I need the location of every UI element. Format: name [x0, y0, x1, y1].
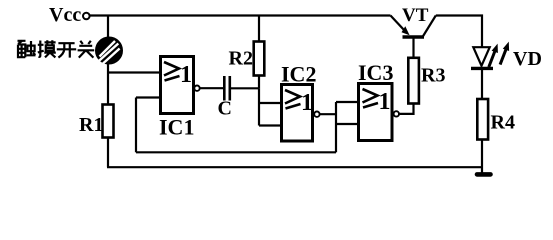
- wire IC3 upper input: [336, 101, 359, 103]
- wire feedback vertical right: [335, 102, 337, 152]
- wire IC2 input column: [258, 88, 260, 125]
- bubble IC2 output: [314, 112, 319, 117]
- transistor VT: [391, 16, 436, 38]
- char 开: [57, 43, 76, 57]
- svg-text:C: C: [218, 98, 232, 120]
- svg-text:Vcc: Vcc: [49, 4, 81, 26]
- wire IC2 upper input: [259, 102, 282, 104]
- or-gate IC1: [161, 57, 194, 114]
- wire IC2 output: [320, 113, 336, 115]
- wire IC3 output to R3: [399, 104, 413, 114]
- bubble IC3 output: [394, 111, 399, 116]
- wire IC2 lower input: [259, 124, 282, 126]
- char 触: [18, 41, 26, 58]
- svg-text:R1: R1: [79, 114, 103, 136]
- wire IC3 lower input: [336, 123, 359, 125]
- or-gate IC3: [359, 84, 393, 141]
- svg-text:IC3: IC3: [358, 60, 393, 85]
- wire top rail right (VT collector to VD): [436, 16, 482, 48]
- touch plate electrode: [96, 37, 122, 63]
- svg-text:VT: VT: [402, 5, 429, 26]
- resistor R4: [477, 99, 488, 140]
- resistor R1: [103, 105, 114, 138]
- wire VD to R4: [481, 70, 483, 99]
- wire C to R2 node: [231, 87, 259, 89]
- wire R3 top to VT base: [412, 39, 414, 58]
- wire top rail left (Vcc to VT emitter): [90, 14, 391, 16]
- bubble IC1 output: [194, 86, 199, 91]
- svg-text:IC2: IC2: [281, 62, 316, 87]
- wire Vcc column below plate to R1: [107, 64, 109, 105]
- wire R2 bottom lead: [258, 76, 260, 89]
- wire R4 bottom: [481, 140, 483, 175]
- terminal Vcc: [83, 13, 90, 20]
- resistor R3: [408, 58, 419, 104]
- wire bottom rail: [107, 166, 482, 168]
- wire R1 bottom: [107, 138, 109, 168]
- wire R2 top lead: [258, 16, 260, 42]
- char 关: [78, 41, 95, 58]
- svg-text:VD: VD: [513, 48, 542, 70]
- svg-text:1: 1: [180, 62, 192, 88]
- label 触摸开关 (touch switch): [18, 40, 95, 57]
- svg-text:R4: R4: [491, 112, 515, 134]
- svg-text:R2: R2: [229, 47, 253, 69]
- led VD: [471, 42, 509, 69]
- wire Vcc column upper: [107, 16, 109, 38]
- svg-text:IC1: IC1: [159, 115, 194, 140]
- svg-text:1: 1: [301, 90, 313, 116]
- capacitor C: [224, 76, 230, 101]
- char 摸: [38, 41, 44, 57]
- ground: [477, 172, 491, 177]
- wire feedback vertical left: [135, 98, 137, 153]
- wire feedback horizontal: [136, 151, 336, 153]
- wire IC1 upper input: [108, 71, 161, 73]
- wire IC1 output to C: [200, 87, 224, 89]
- svg-text:1: 1: [379, 89, 391, 115]
- wire IC1 lower input: [136, 96, 161, 98]
- svg-text:R3: R3: [421, 64, 445, 86]
- resistor R2: [254, 42, 265, 76]
- or-gate IC2: [282, 85, 314, 142]
